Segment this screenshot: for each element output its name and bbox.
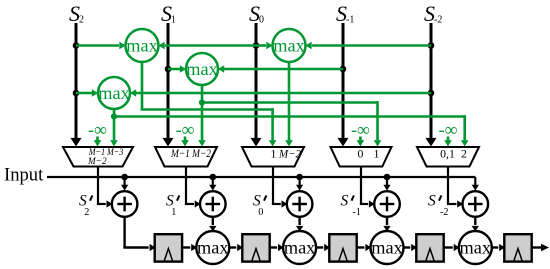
wire input to adder A3 [296, 177, 303, 191]
node S'1 label [166, 193, 179, 218]
wire S1 state line [163, 23, 174, 147]
max unit M4 [459, 231, 492, 264]
wire max U1 output drop [269, 108, 277, 146]
wire input bus end drop [472, 177, 479, 191]
mux T3 label [271, 147, 302, 161]
mux T3 [242, 147, 304, 167]
wire S0 to max U3 [256, 42, 273, 50]
wire max U1 output down [141, 62, 144, 110]
wire -inf arrow [94, 137, 102, 147]
node S'0 label [253, 193, 266, 218]
op max U1 [126, 29, 159, 62]
svg-text:max: max [197, 238, 228, 258]
wire S1 to max U2 [168, 65, 186, 73]
wire mux T2 output to adder A2 [185, 167, 201, 208]
adder A2 [200, 191, 226, 217]
mux T4 label [358, 147, 380, 161]
svg-text:0: 0 [258, 207, 263, 218]
svg-text:max: max [460, 238, 491, 258]
node S1 junction [165, 66, 172, 73]
wire adder A5 to max M4 [472, 217, 479, 232]
svg-text:max: max [186, 59, 217, 79]
wire max U2 output down [198, 85, 206, 147]
mux T1 label [87, 147, 123, 167]
wire input to adder A1 [121, 177, 128, 191]
node max U2 branch junction [199, 99, 205, 105]
adder A3 [287, 191, 313, 217]
wire mux T5 output to adder A5 [447, 167, 463, 208]
wire S-2 to max U4 [130, 89, 431, 97]
wire max U1 output across [141, 108, 273, 111]
node S-2 junction lower [428, 90, 435, 97]
svg-text:1: 1 [374, 147, 380, 161]
svg-text:1: 1 [171, 15, 176, 26]
node S'-2 label [428, 193, 449, 218]
op max U3 [273, 29, 306, 62]
op max U2 [186, 53, 218, 85]
wire adder A3 to max M2 [296, 217, 303, 232]
svg-text:-1: -1 [346, 15, 354, 26]
node input junction A4 [384, 174, 391, 181]
wire max U2 branch drop [374, 101, 382, 146]
wire max M4 to register R5 [492, 244, 505, 251]
wire max M2 to register R3 [316, 244, 330, 251]
wire max U2 branch across [202, 101, 378, 104]
svg-text:-2: -2 [440, 207, 449, 218]
svg-text:-2: -2 [434, 15, 442, 26]
register R5 [504, 234, 531, 261]
wire register R4 to max M4 [444, 244, 460, 251]
wire input bus [47, 176, 475, 178]
node S-1 junction [340, 66, 347, 73]
wire -inf arrow [444, 137, 452, 147]
wire mux T3 output to adder A3 [272, 167, 287, 208]
wire max M3 to register R4 [404, 244, 418, 251]
wire output [532, 244, 549, 251]
node S'2 label [79, 193, 92, 218]
wire adder A4 to max M3 [383, 217, 390, 232]
svg-text:M−1 M−2: M−1 M−2 [170, 146, 211, 160]
mux T1 [63, 147, 133, 167]
op max U4 [98, 77, 130, 109]
wire S0 state line [251, 23, 262, 147]
register R4 [416, 234, 443, 261]
svg-text:2: 2 [79, 15, 84, 26]
node S'-1 label [341, 193, 362, 218]
wire register R2 to max M2 [270, 244, 284, 251]
node S1 label [161, 1, 176, 26]
node S2 label [69, 1, 84, 26]
wire adder A1 to register R1 [123, 217, 155, 251]
node S-2 junction upper [428, 42, 435, 49]
svg-text:M−2: M−2 [278, 147, 301, 161]
svg-text:1: 1 [171, 207, 176, 218]
node S2 junction lower [73, 90, 80, 97]
node max U4 branch junction [111, 113, 117, 119]
svg-text:M−2: M−2 [87, 156, 107, 167]
max unit M2 [283, 231, 316, 264]
register R3 [329, 234, 356, 261]
wire mux T1 output to adder A1 [97, 167, 112, 208]
mux T4 [331, 147, 392, 167]
adder A4 [374, 191, 400, 217]
node S0 label [249, 1, 264, 26]
node input junction A3 [296, 174, 303, 181]
svg-text:0,1: 0,1 [440, 147, 455, 161]
svg-text:max: max [98, 83, 129, 103]
max unit M3 [371, 231, 404, 264]
svg-text:0: 0 [259, 15, 264, 26]
node S-1 label [336, 1, 354, 26]
svg-text:max: max [126, 36, 157, 56]
wire input to adder A2 [209, 177, 216, 191]
wire S0 to max U1 [158, 42, 256, 50]
wire max U4 output down [110, 109, 118, 147]
svg-text:S: S [341, 193, 349, 210]
wire max U4 branch across [114, 115, 465, 118]
register R1 [155, 234, 182, 261]
svg-text:Input: Input [4, 165, 44, 186]
svg-text:2: 2 [84, 207, 89, 218]
wire S-2 state line [426, 23, 437, 147]
wire S-2 to max U3 [305, 42, 431, 50]
svg-text:0: 0 [358, 147, 364, 161]
max unit M1 [196, 231, 229, 264]
wire max U3 output down [285, 62, 293, 147]
node S2 junction upper [73, 42, 80, 49]
node input junction A1 [121, 174, 128, 181]
mux T5 label [440, 147, 467, 161]
svg-text:1: 1 [271, 147, 277, 161]
node S0 junction [253, 42, 260, 49]
wire S2 to max U1 [76, 42, 126, 50]
node S-2 label [424, 1, 442, 26]
svg-text:2: 2 [461, 147, 467, 161]
adder A1 [112, 191, 138, 217]
node input junction A2 [210, 174, 217, 181]
wire -inf arrow [181, 137, 189, 147]
wire S-1 to max U2 [218, 65, 343, 73]
svg-text:max: max [273, 36, 304, 56]
wire S2 to max U4 [76, 89, 98, 97]
wire S-1 state line [338, 23, 349, 147]
svg-text:S: S [428, 193, 436, 210]
svg-text:-1: -1 [353, 207, 362, 218]
wire register R3 to max M3 [357, 244, 372, 251]
wire input to adder A4 [383, 177, 390, 191]
svg-text:max: max [371, 238, 402, 258]
mux T5 [417, 147, 479, 167]
wire adder A2 to max M1 [209, 217, 216, 232]
wire max U4 branch drop [461, 115, 469, 146]
adder A5 [463, 191, 489, 217]
wire mux T4 output to adder A4 [360, 167, 375, 208]
wire S2 state line [71, 23, 82, 147]
wire -inf arrow [357, 137, 365, 147]
mux T2 [155, 147, 217, 167]
wire register R1 to max M1 [182, 244, 197, 251]
wire max M1 to register R2 [229, 244, 243, 251]
svg-text:max: max [284, 238, 315, 258]
register R2 [242, 234, 269, 261]
